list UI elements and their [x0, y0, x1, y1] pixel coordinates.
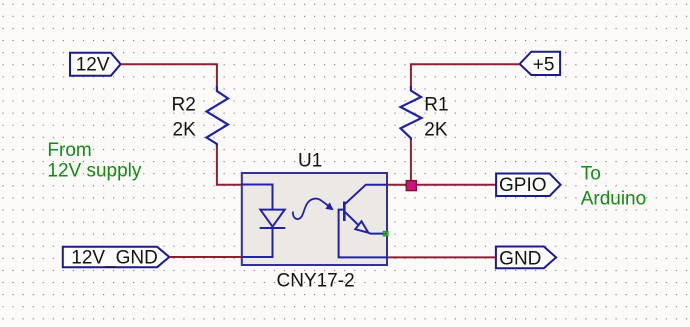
svg-text:12V_GND: 12V_GND — [71, 248, 158, 269]
wire U1 emitter-side to GND — [387, 256, 496, 258]
note From 12V supply — [47, 140, 142, 182]
wire U1 collector to GPIO — [387, 184, 496, 186]
net flag 12V — [70, 53, 121, 76]
transistor collector — [345, 185, 387, 204]
dangling pin marker (green) — [383, 231, 388, 236]
net flag GND — [496, 247, 556, 270]
svg-text:GND: GND — [499, 248, 541, 269]
svg-text:CNY17-2: CNY17-2 — [277, 270, 355, 291]
LED cathode bar — [260, 227, 286, 229]
svg-text:GPIO: GPIO — [499, 175, 547, 196]
svg-text:12V: 12V — [76, 55, 110, 76]
svg-text:2K: 2K — [424, 120, 448, 141]
transistor emitter with arrow — [345, 212, 383, 234]
wire 12V_GND to U1 — [169, 256, 242, 258]
wire 12V to R2 — [121, 64, 217, 87]
svg-text:12V supply: 12V supply — [47, 161, 142, 182]
net flag GPIO — [496, 174, 560, 197]
svg-text:2K: 2K — [173, 120, 197, 141]
LED triangle — [260, 210, 284, 227]
resistor R1 — [401, 86, 422, 140]
svg-text:From: From — [47, 140, 91, 161]
net flag +5 — [520, 52, 560, 76]
junction node — [406, 181, 416, 191]
svg-text:R1: R1 — [424, 95, 448, 116]
net flag 12V_GND — [63, 247, 170, 269]
wire R1 to junction — [410, 140, 412, 186]
svg-text:To: To — [581, 163, 601, 184]
LED anode lead — [242, 185, 273, 210]
transistor base bar — [343, 202, 346, 222]
svg-text:R2: R2 — [172, 95, 196, 116]
wire R2 to U1 pin — [217, 146, 242, 185]
svg-text:U1: U1 — [298, 150, 322, 171]
coupling arrow — [293, 199, 334, 219]
op-to body U1 box — [242, 173, 387, 265]
svg-text:+5: +5 — [533, 54, 555, 75]
transistor base wire to bottom pin — [339, 210, 387, 258]
LED cathode lead — [242, 228, 273, 257]
note To Arduino — [581, 163, 647, 209]
resistor R2 — [207, 86, 229, 147]
wire +5 to R1 — [411, 64, 520, 87]
svg-text:Arduino: Arduino — [581, 189, 647, 210]
